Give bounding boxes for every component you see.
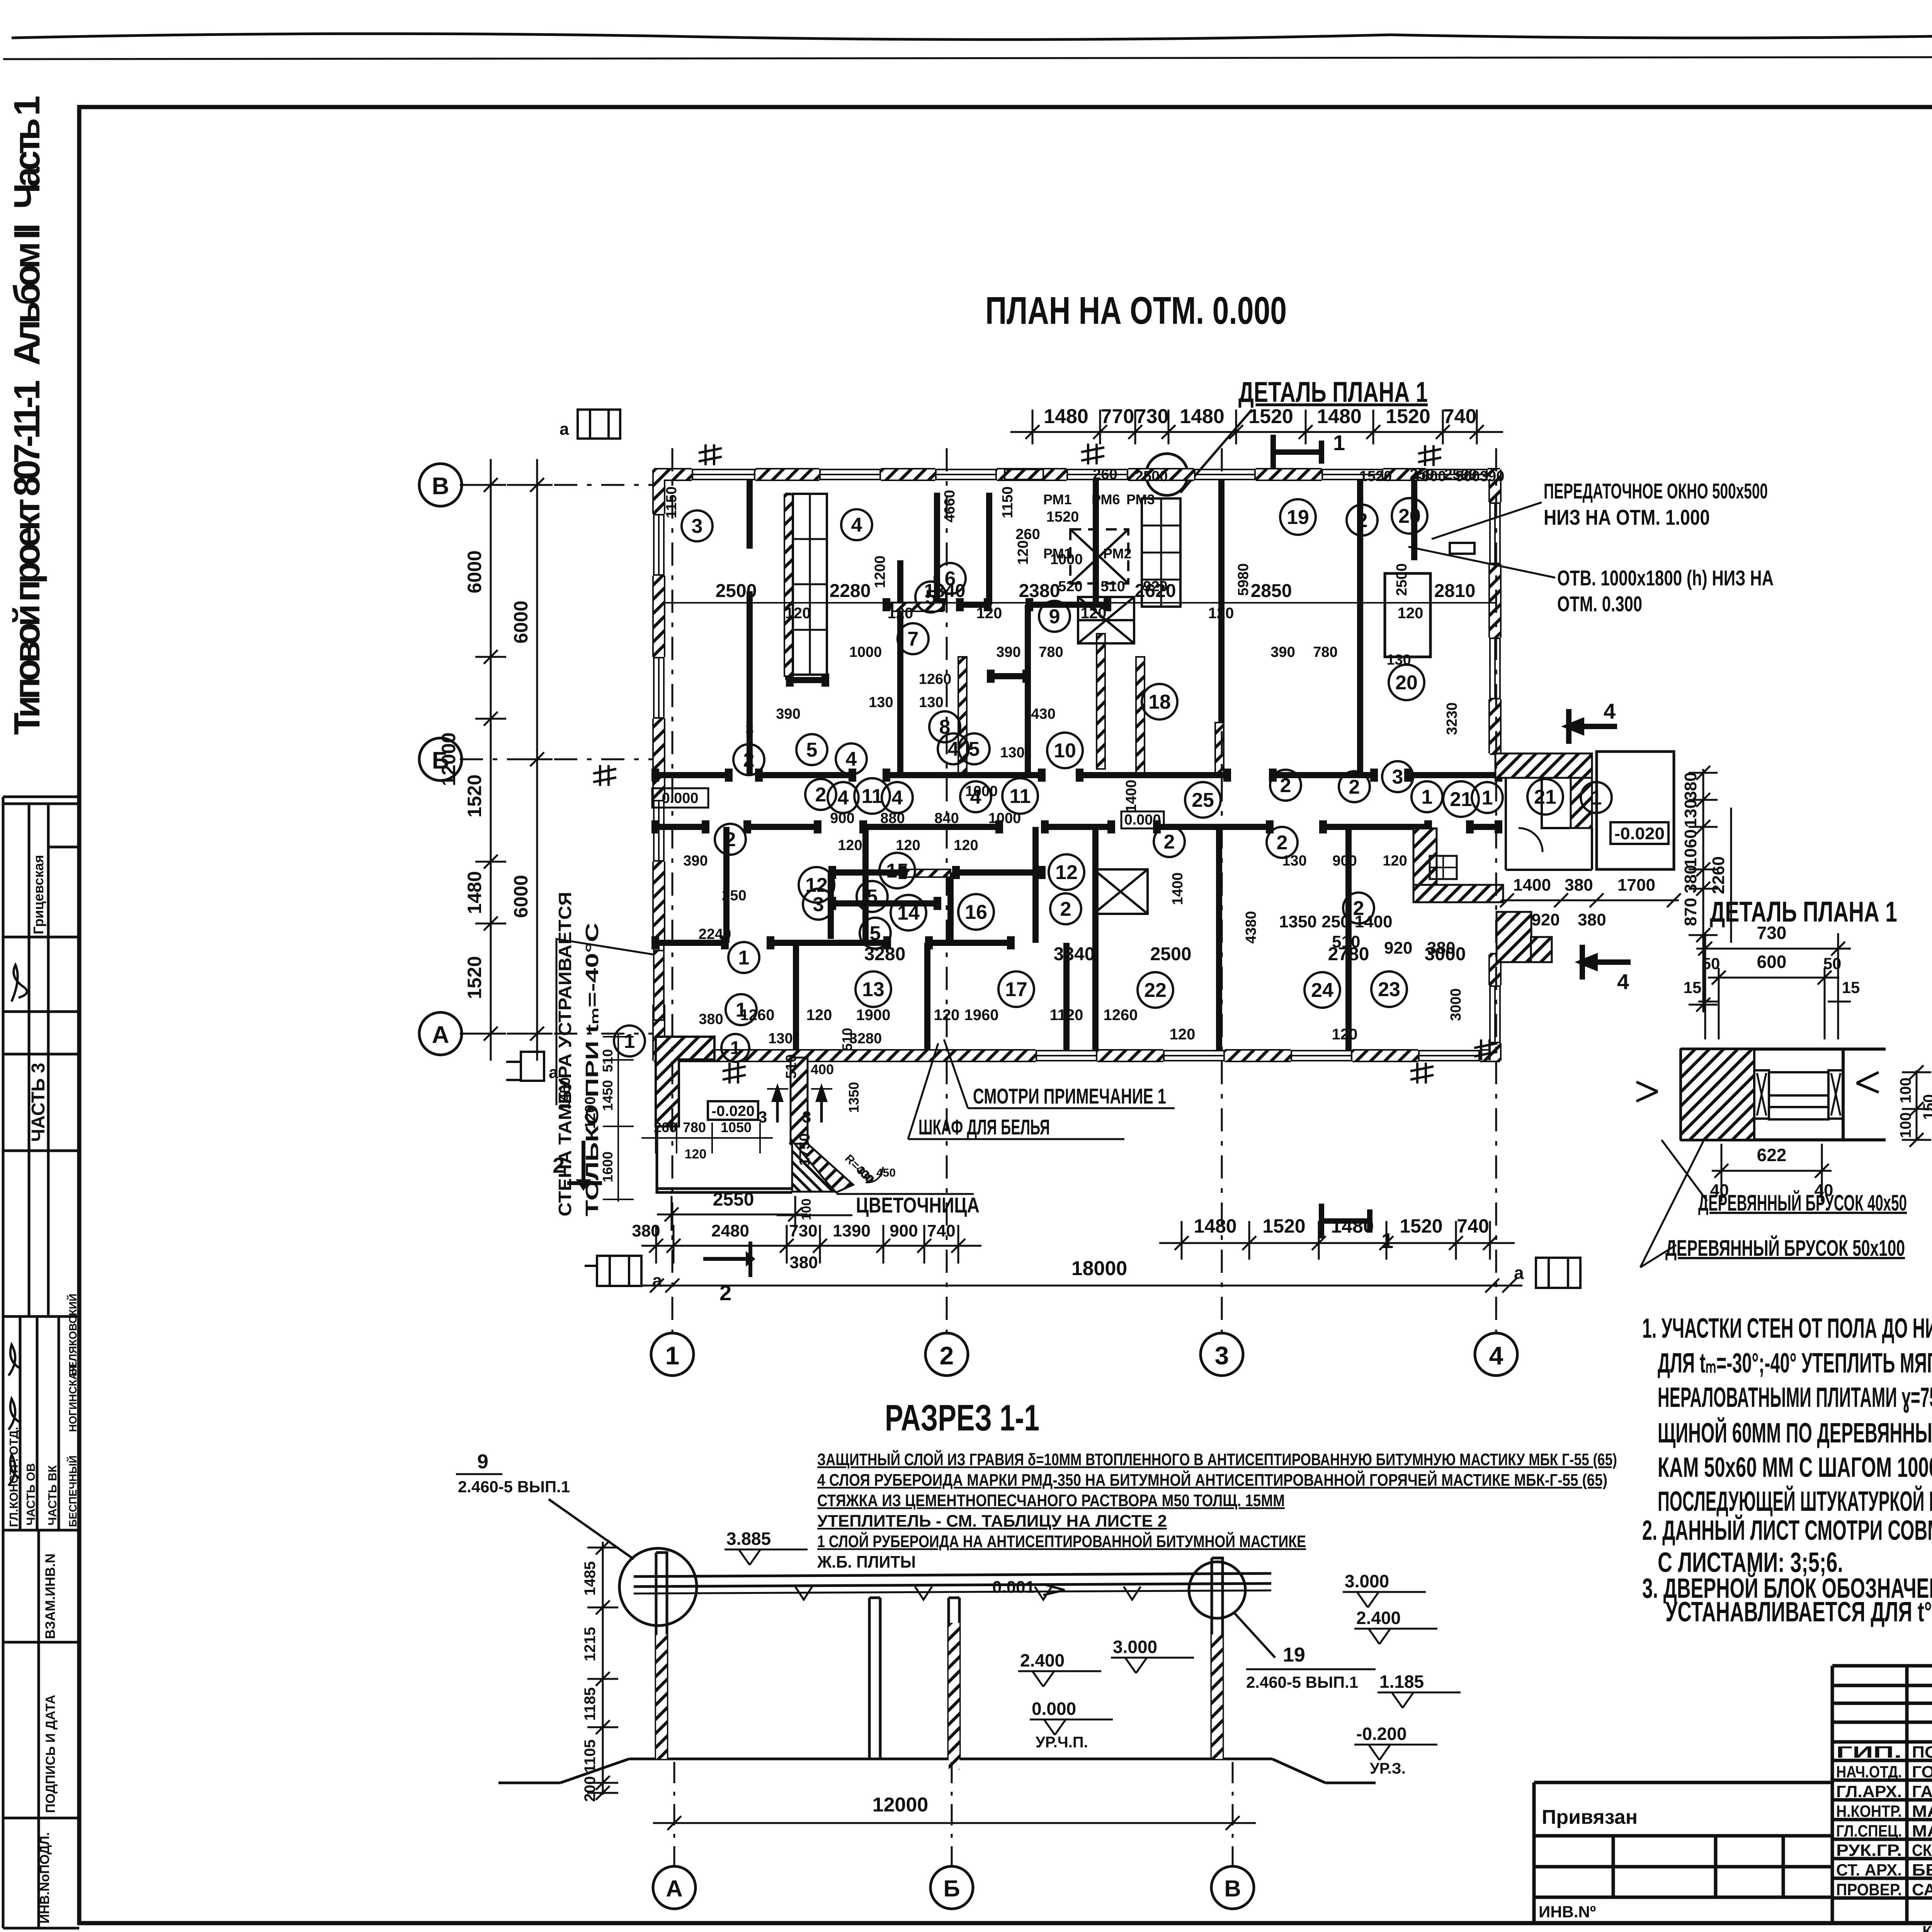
svg-text:2500: 2500 bbox=[1150, 944, 1192, 964]
section marks bbox=[1273, 430, 1631, 1253]
svg-text:130: 130 bbox=[1000, 745, 1024, 761]
svg-text:18000: 18000 bbox=[1071, 1257, 1128, 1280]
svg-text:4660: 4660 bbox=[942, 490, 958, 523]
title block: signature table bbox=[1832, 1666, 1932, 1932]
svg-text:120: 120 bbox=[1383, 853, 1407, 869]
vent shaft crosses bbox=[1070, 529, 1148, 914]
svg-text:3.885: 3.885 bbox=[726, 1529, 771, 1549]
svg-text:900: 900 bbox=[889, 1221, 918, 1240]
svg-text:Ж.Б. ПЛИТЫ: Ж.Б. ПЛИТЫ bbox=[817, 1553, 916, 1571]
svg-text:ПРОВЕР.: ПРОВЕР. bbox=[1836, 1881, 1902, 1899]
svg-text:130: 130 bbox=[1386, 652, 1411, 668]
svg-text:120: 120 bbox=[888, 605, 913, 622]
svg-text:1050: 1050 bbox=[721, 1119, 752, 1135]
svg-text:4 СЛОЯ РУБЕРОИДА МАРКИ РМД-350: 4 СЛОЯ РУБЕРОИДА МАРКИ РМД-350 НА БИТУМН… bbox=[817, 1470, 1607, 1490]
svg-text:50: 50 bbox=[1702, 954, 1720, 973]
svg-text:2500: 2500 bbox=[716, 581, 757, 601]
svg-text:3.000: 3.000 bbox=[1345, 1571, 1389, 1591]
a-box right bottom bbox=[1514, 1258, 1580, 1289]
svg-text:1520: 1520 bbox=[464, 956, 485, 999]
svg-text:17: 17 bbox=[1005, 978, 1027, 1001]
room number bubbles bbox=[614, 498, 1612, 1056]
svg-text:ЧАСТЬ ОВ: ЧАСТЬ ОВ bbox=[24, 1463, 37, 1526]
svg-text:а: а bbox=[560, 420, 569, 439]
svg-text:250: 250 bbox=[722, 888, 746, 904]
small a-boxes top bbox=[560, 410, 620, 439]
svg-text:Привязан: Привязан bbox=[1542, 1806, 1638, 1828]
sheet top scan edge bbox=[3, 34, 1932, 59]
svg-text:14: 14 bbox=[897, 902, 920, 924]
svg-text:120: 120 bbox=[806, 1007, 832, 1024]
svg-text:260: 260 bbox=[1093, 466, 1117, 483]
svg-text:РМ6: РМ6 bbox=[1092, 492, 1120, 507]
svg-text:9: 9 bbox=[1049, 605, 1060, 628]
svg-text:Грицевская: Грицевская bbox=[31, 855, 46, 934]
svg-text:1200: 1200 bbox=[872, 556, 888, 588]
svg-text:380: 380 bbox=[632, 1221, 660, 1240]
svg-text:РМ3: РМ3 bbox=[1126, 492, 1155, 507]
svg-text:130: 130 bbox=[1681, 799, 1700, 827]
-0.020 box tambour bbox=[708, 1101, 758, 1120]
sidebar small labels bbox=[7, 855, 79, 1923]
svg-text:10: 10 bbox=[1054, 740, 1076, 762]
svg-text:100: 100 bbox=[1897, 1112, 1914, 1138]
a-box left bottom bbox=[585, 1256, 662, 1291]
svg-text:2.460-5 ВЫП.1: 2.460-5 ВЫП.1 bbox=[458, 1478, 570, 1496]
svg-text:2.400: 2.400 bbox=[1020, 1650, 1065, 1670]
svg-text:МАРКОВ: МАРКОВ bbox=[1912, 1822, 1932, 1840]
svg-text:15: 15 bbox=[1842, 978, 1860, 997]
svg-text:4: 4 bbox=[1489, 1341, 1503, 1370]
svg-text:УР.З.: УР.З. bbox=[1370, 1760, 1406, 1777]
svg-text:6000: 6000 bbox=[510, 875, 532, 918]
svg-text:1: 1 bbox=[1333, 430, 1345, 455]
svg-text:15: 15 bbox=[886, 860, 908, 882]
svg-text:ЧАСТЬ ВК: ЧАСТЬ ВК bbox=[46, 1465, 59, 1526]
svg-text:5: 5 bbox=[806, 739, 818, 761]
svg-text:1750: 1750 bbox=[797, 1133, 813, 1166]
svg-text:1400: 1400 bbox=[1513, 876, 1551, 895]
svg-text:3: 3 bbox=[692, 515, 703, 537]
svg-text:ПЛАН НА ОТМ. 0.000: ПЛАН НА ОТМ. 0.000 bbox=[985, 289, 1287, 332]
svg-text:740: 740 bbox=[1457, 1215, 1489, 1237]
right extension tambour bbox=[1495, 752, 1674, 962]
wardrobe grid room9 bbox=[1142, 498, 1180, 607]
svg-text:Н.КОНТР.: Н.КОНТР. bbox=[1836, 1802, 1902, 1821]
svg-text:ЩИНОЙ 60ММ ПО ДЕРЕВЯННЫМ БРУС-: ЩИНОЙ 60ММ ПО ДЕРЕВЯННЫМ БРУС- bbox=[1658, 1417, 1932, 1449]
svg-text:120: 120 bbox=[838, 837, 862, 854]
svg-text:120: 120 bbox=[954, 837, 978, 854]
svg-text:2: 2 bbox=[553, 1153, 565, 1177]
svg-text:ГИП.: ГИП. bbox=[1836, 1743, 1902, 1762]
svg-text:ПЕРЕДАТОЧНОЕ ОКНО 500х500: ПЕРЕДАТОЧНОЕ ОКНО 500х500 bbox=[1544, 479, 1768, 503]
outer wall pier hatching bbox=[654, 469, 1500, 1061]
svg-text:120: 120 bbox=[896, 837, 920, 854]
svg-text:4: 4 bbox=[846, 748, 857, 770]
svg-text:1000: 1000 bbox=[849, 644, 882, 660]
svg-text:1840: 1840 bbox=[924, 581, 966, 601]
svg-text:3: 3 bbox=[1215, 1341, 1229, 1370]
svg-text:1600: 1600 bbox=[600, 1151, 616, 1182]
svg-text:2. ДАННЫЙ ЛИСТ СМОТРИ СОВМЕСТН: 2. ДАННЫЙ ЛИСТ СМОТРИ СОВМЕСТНО bbox=[1642, 1514, 1932, 1546]
hatched wall cuts bbox=[654, 469, 1224, 1020]
svg-text:1485: 1485 bbox=[582, 1561, 599, 1596]
svg-text:2: 2 bbox=[1280, 774, 1291, 797]
svg-text:4: 4 bbox=[838, 787, 849, 809]
svg-text:-0.020: -0.020 bbox=[711, 1103, 755, 1119]
svg-text:0.000: 0.000 bbox=[662, 790, 698, 806]
svg-text:1150: 1150 bbox=[663, 486, 680, 518]
svg-text:260: 260 bbox=[654, 1119, 677, 1135]
svg-text:20: 20 bbox=[1398, 505, 1421, 527]
svg-text:21: 21 bbox=[1534, 786, 1556, 808]
detail labels bbox=[1640, 1140, 1907, 1267]
svg-text:1480: 1480 bbox=[1180, 405, 1225, 428]
svg-text:5: 5 bbox=[867, 886, 878, 908]
svg-text:БЕСПЕЧНЫЙ: БЕСПЕЧНЫЙ bbox=[66, 1456, 79, 1527]
svg-text:1: 1 bbox=[730, 1038, 741, 1058]
svg-text:3280: 3280 bbox=[849, 1031, 882, 1047]
svg-text:50: 50 bbox=[1823, 954, 1842, 973]
svg-text:2: 2 bbox=[725, 828, 736, 851]
svg-text:Типовой проект 807-11-1 Альб: Типовой проект 807-11-1 Альбом II Часть … bbox=[7, 95, 48, 735]
detail callout circle bbox=[1146, 454, 1188, 495]
svg-text:РУК.ГР.: РУК.ГР. bbox=[1836, 1841, 1902, 1860]
room bubble 1 tambour bbox=[721, 1034, 749, 1062]
svg-text:5: 5 bbox=[870, 922, 881, 945]
svg-text:730: 730 bbox=[1135, 405, 1169, 428]
section left dims bbox=[582, 1541, 618, 1802]
svg-text:380: 380 bbox=[789, 1253, 818, 1272]
svg-text:ИНВ.Nº: ИНВ.Nº bbox=[1539, 1903, 1596, 1921]
svg-text:2: 2 bbox=[1060, 898, 1071, 920]
svg-text:380: 380 bbox=[699, 1011, 723, 1027]
svg-text:1: 1 bbox=[1422, 786, 1433, 808]
RM labels bbox=[1043, 492, 1155, 561]
svg-text:1060: 1060 bbox=[1681, 829, 1700, 867]
opening room 20 bbox=[1385, 543, 1475, 657]
svg-text:3: 3 bbox=[1392, 766, 1403, 788]
flower bed triangle bbox=[777, 1141, 974, 1215]
left dimension chains bbox=[438, 459, 553, 1061]
svg-text:430: 430 bbox=[1031, 706, 1055, 722]
svg-text:150: 150 bbox=[1920, 1094, 1932, 1120]
-0.020 box right bbox=[1611, 822, 1668, 844]
svg-text:120: 120 bbox=[1081, 605, 1107, 622]
svg-text:ЦВЕТОЧНИЦА: ЦВЕТОЧНИЦА bbox=[856, 1193, 980, 1217]
svg-text:-0.200: -0.200 bbox=[1356, 1724, 1406, 1744]
svg-text:380: 380 bbox=[1681, 865, 1700, 893]
svg-text:1400: 1400 bbox=[1123, 780, 1139, 813]
svg-text:380: 380 bbox=[1565, 876, 1593, 895]
svg-text:130: 130 bbox=[768, 1031, 793, 1047]
svg-text:2780: 2780 bbox=[1328, 944, 1369, 964]
svg-text:ДЛЯ tₘ=-30°;-40° УТЕПЛИТЬ МЯГК: ДЛЯ tₘ=-30°;-40° УТЕПЛИТЬ МЯГКИМИ МИ- bbox=[1658, 1348, 1932, 1379]
svg-text:3000: 3000 bbox=[1448, 988, 1464, 1021]
svg-text:2500: 2500 bbox=[1135, 468, 1168, 485]
svg-text:а: а bbox=[1514, 1263, 1524, 1283]
svg-text:РМ1: РМ1 bbox=[1043, 546, 1072, 561]
axis lines horizontal bbox=[460, 485, 654, 1034]
svg-text:120: 120 bbox=[976, 605, 1002, 622]
svg-text:3: 3 bbox=[813, 893, 824, 916]
wardrobe grid room4 bbox=[793, 494, 827, 675]
axis bubbles left of plan bbox=[419, 464, 462, 1055]
svg-text:510: 510 bbox=[600, 1049, 616, 1072]
svg-text:130: 130 bbox=[1282, 853, 1306, 869]
svg-text:2.400: 2.400 bbox=[1356, 1608, 1401, 1628]
svg-text:12000: 12000 bbox=[872, 1794, 929, 1816]
svg-text:2: 2 bbox=[815, 784, 827, 806]
building outer walls bbox=[654, 469, 1500, 1061]
svg-text:НИЗ НА ОТМ. 1.000: НИЗ НА ОТМ. 1.000 bbox=[1544, 505, 1710, 529]
section axis bubbles bbox=[653, 1762, 1254, 1909]
svg-text:1: 1 bbox=[1482, 787, 1493, 809]
interior dims row2 bbox=[740, 944, 1466, 1043]
top dimension line bbox=[1010, 405, 1503, 444]
svg-text:2810: 2810 bbox=[1434, 581, 1476, 601]
svg-text:12: 12 bbox=[1055, 861, 1078, 884]
svg-text:1520: 1520 bbox=[1248, 405, 1293, 428]
svg-text:2550: 2550 bbox=[713, 1189, 754, 1210]
svg-text:510: 510 bbox=[1100, 578, 1125, 595]
svg-text:1520: 1520 bbox=[1400, 1215, 1442, 1237]
svg-text:1260: 1260 bbox=[1104, 1007, 1138, 1024]
svg-text:6000: 6000 bbox=[510, 600, 532, 643]
svg-text:1480: 1480 bbox=[1044, 405, 1088, 428]
svg-text:120: 120 bbox=[1170, 1026, 1196, 1043]
svg-text:1260: 1260 bbox=[740, 1007, 775, 1024]
svg-text:1520: 1520 bbox=[1359, 468, 1392, 485]
svg-text:380: 380 bbox=[1578, 910, 1606, 929]
svg-text:12000: 12000 bbox=[438, 732, 459, 786]
svg-text:ПОДПИСЬ И ДАТА: ПОДПИСЬ И ДАТА bbox=[43, 1695, 58, 1813]
svg-text:130: 130 bbox=[869, 694, 893, 711]
svg-text:СМОТРИ ПРИМЕЧАНИЕ 1: СМОТРИ ПРИМЕЧАНИЕ 1 bbox=[973, 1084, 1166, 1108]
section title bbox=[885, 1397, 1039, 1439]
svg-text:СТ. АРХ.: СТ. АРХ. bbox=[1836, 1861, 1902, 1879]
svg-text:РМ1: РМ1 bbox=[1043, 492, 1072, 507]
svg-text:2500: 2500 bbox=[1444, 466, 1477, 483]
svg-text:ДЕРЕВЯННЫЙ БРУСОК 40х50: ДЕРЕВЯННЫЙ БРУСОК 40х50 bbox=[1698, 1190, 1907, 1216]
svg-text:2.460-5 ВЫП.1: 2.460-5 ВЫП.1 bbox=[1246, 1673, 1358, 1691]
svg-text:400: 400 bbox=[811, 1061, 834, 1077]
svg-text:3000: 3000 bbox=[1425, 944, 1466, 964]
svg-text:РАЗРЕЗ 1-1: РАЗРЕЗ 1-1 bbox=[885, 1397, 1039, 1439]
svg-text:120: 120 bbox=[1208, 605, 1234, 622]
svg-text:200: 200 bbox=[582, 1776, 599, 1802]
interior walls bbox=[654, 480, 1500, 1051]
svg-text:2500: 2500 bbox=[1394, 563, 1410, 596]
svg-text:ЧАСТЬ 3: ЧАСТЬ 3 bbox=[28, 1063, 49, 1142]
svg-text:2: 2 bbox=[1349, 776, 1360, 798]
svg-text:520: 520 bbox=[1058, 578, 1082, 595]
porch stair arrows bbox=[758, 1083, 832, 1126]
svg-text:2280: 2280 bbox=[830, 581, 871, 601]
svg-text:24: 24 bbox=[1311, 979, 1333, 1002]
svg-text:380: 380 bbox=[1681, 772, 1700, 800]
detail drawing bbox=[1636, 1049, 1886, 1140]
svg-text:1480: 1480 bbox=[464, 871, 485, 914]
svg-text:ДЕРЕВЯННЫЙ БРУСОК 50х100: ДЕРЕВЯННЫЙ БРУСОК 50х100 bbox=[1665, 1236, 1905, 1261]
svg-text:1480: 1480 bbox=[1317, 405, 1362, 428]
svg-text:1: 1 bbox=[1591, 787, 1602, 809]
svg-text:1260: 1260 bbox=[919, 671, 952, 687]
dimension 2550 bbox=[657, 1189, 814, 1231]
svg-text:ГОРБУНОВ: ГОРБУНОВ bbox=[1912, 1763, 1932, 1781]
svg-text:А: А bbox=[432, 1022, 449, 1048]
svg-text:1: 1 bbox=[624, 1030, 635, 1053]
svg-text:1400: 1400 bbox=[1170, 872, 1186, 905]
svg-text:ДЕТАЛЬ ПЛАНА 1: ДЕТАЛЬ ПЛАНА 1 bbox=[1238, 376, 1428, 408]
svg-text:4: 4 bbox=[1617, 969, 1629, 994]
svg-text:900: 900 bbox=[1332, 853, 1357, 869]
svg-text:3: 3 bbox=[745, 721, 753, 738]
svg-text:2: 2 bbox=[940, 1341, 954, 1370]
svg-text:ОТВ. 1000х1800 (h) НИЗ НА: ОТВ. 1000х1800 (h) НИЗ НА bbox=[1557, 566, 1774, 590]
svg-text:РМ2: РМ2 bbox=[1103, 546, 1132, 561]
svg-text:16: 16 bbox=[965, 901, 987, 923]
svg-text:а: а bbox=[549, 1063, 558, 1082]
svg-text:ШКАФ ДЛЯ БЕЛЬЯ: ШКАФ ДЛЯ БЕЛЬЯ bbox=[918, 1115, 1050, 1139]
svg-text:1150: 1150 bbox=[1000, 486, 1016, 518]
svg-text:ПОСЛЕДУЮЩЕЙ ШТУКАТУРКОЙ ПО СЕТ: ПОСЛЕДУЮЩЕЙ ШТУКАТУРКОЙ ПО СЕТКЕ. bbox=[1658, 1485, 1932, 1517]
svg-text:740: 740 bbox=[1443, 405, 1477, 428]
svg-text:740: 740 bbox=[927, 1221, 955, 1240]
svg-text:1: 1 bbox=[738, 947, 750, 969]
svg-text:ВЗАМ.ИНВ.N: ВЗАМ.ИНВ.N bbox=[43, 1553, 58, 1639]
dimension 18000 bbox=[641, 1257, 1522, 1293]
elevation marks bbox=[724, 1529, 808, 1565]
svg-text:2240: 2240 bbox=[699, 926, 731, 942]
svg-text:5980: 5980 bbox=[1235, 563, 1252, 596]
svg-text:780: 780 bbox=[1039, 644, 1063, 660]
svg-text:БЕЛЯКОВСКИЙ: БЕЛЯКОВСКИЙ bbox=[66, 1294, 79, 1376]
svg-text:100: 100 bbox=[1897, 1078, 1914, 1104]
svg-text:1105: 1105 bbox=[582, 1740, 599, 1773]
svg-text:770: 770 bbox=[1101, 405, 1134, 428]
misc small dims scattered bbox=[557, 466, 1504, 1166]
annotation шкаф для белья bbox=[908, 1043, 1124, 1139]
svg-text:18: 18 bbox=[1148, 691, 1171, 713]
svg-text:900: 900 bbox=[830, 810, 854, 827]
svg-text:УР.Ч.П.: УР.Ч.П. bbox=[1036, 1734, 1088, 1751]
svg-text:120: 120 bbox=[785, 605, 811, 622]
entrance porch bottom-left bbox=[657, 1058, 853, 1192]
svg-text:1960: 1960 bbox=[964, 1007, 999, 1024]
svg-text:Б: Б bbox=[943, 1876, 960, 1901]
svg-text:6000: 6000 bbox=[464, 550, 485, 593]
svg-text:НАЧ.ОТД.: НАЧ.ОТД. bbox=[1836, 1763, 1902, 1781]
svg-text:730: 730 bbox=[1757, 923, 1787, 943]
svg-text:2380: 2380 bbox=[1019, 581, 1060, 601]
svg-text:1215: 1215 bbox=[582, 1627, 599, 1662]
svg-text:1185: 1185 bbox=[582, 1687, 599, 1721]
svg-text:622: 622 bbox=[1757, 1145, 1787, 1165]
svg-text:20: 20 bbox=[1395, 672, 1418, 694]
svg-text:ДЕТАЛЬ ПЛАНА 1: ДЕТАЛЬ ПЛАНА 1 bbox=[1710, 896, 1897, 928]
detail circle right bbox=[1189, 1562, 1376, 1691]
svg-text:780: 780 bbox=[683, 1119, 706, 1135]
right extension dims bbox=[1681, 766, 1731, 1012]
detail dims above bbox=[1684, 923, 1860, 1039]
svg-text:1480: 1480 bbox=[1194, 1215, 1236, 1237]
svg-text:23: 23 bbox=[1378, 978, 1400, 1001]
svg-text:260: 260 bbox=[1015, 526, 1040, 543]
svg-text:1000: 1000 bbox=[965, 783, 998, 799]
svg-text:2: 2 bbox=[1164, 831, 1175, 853]
section 12000 dim bbox=[653, 1794, 1256, 1830]
dims 1350 250 1400 row bbox=[1279, 912, 1455, 957]
svg-text:920: 920 bbox=[1531, 910, 1560, 929]
svg-text:1350 250 1400: 1350 250 1400 bbox=[1279, 912, 1393, 931]
svg-text:390: 390 bbox=[683, 853, 707, 869]
svg-text:11: 11 bbox=[862, 785, 883, 808]
door jamb blobs bbox=[651, 598, 1502, 949]
svg-text:1 СЛОЙ РУБЕРОИДА НА АНТИСЕПТИР: 1 СЛОЙ РУБЕРОИДА НА АНТИСЕПТИРОВАННОЙ БИ… bbox=[817, 1531, 1306, 1551]
svg-text:ГАВРИЛОВ: ГАВРИЛОВ bbox=[1912, 1782, 1932, 1801]
svg-text:0.001: 0.001 bbox=[992, 1578, 1035, 1597]
svg-text:СТЯЖКА ИЗ ЦЕМЕНТНОПЕСЧАНОГО РА: СТЯЖКА ИЗ ЦЕМЕНТНОПЕСЧАНОГО РАСТВОРА М50… bbox=[817, 1491, 1285, 1510]
svg-text:870: 870 bbox=[1681, 898, 1700, 926]
svg-text:1520: 1520 bbox=[464, 774, 485, 817]
svg-text:25: 25 bbox=[1192, 789, 1214, 811]
bottom dimensions left part bbox=[632, 1221, 981, 1272]
sidebar stamp grid bbox=[3, 797, 79, 1928]
svg-text:1: 1 bbox=[1381, 1228, 1393, 1253]
svg-text:13: 13 bbox=[862, 978, 884, 1001]
svg-text:1000: 1000 bbox=[988, 810, 1021, 827]
axis bubbles bottom of plan bbox=[651, 1333, 1517, 1376]
svg-text:1350: 1350 bbox=[846, 1082, 862, 1113]
svg-text:БЕЛЯЕВ: БЕЛЯЕВ bbox=[1912, 1861, 1932, 1879]
svg-text:600: 600 bbox=[1757, 952, 1787, 972]
svg-text:А: А bbox=[666, 1876, 682, 1901]
annotation смотри примечание bbox=[944, 1039, 1175, 1108]
section structure bbox=[498, 1553, 1376, 1783]
svg-text:1390: 1390 bbox=[833, 1221, 871, 1240]
svg-text:730: 730 bbox=[789, 1221, 817, 1240]
leader передаточное окно bbox=[1432, 479, 1768, 539]
svg-text:1. УЧАСТКИ СТЕН ОТ ПОЛА ДО НИЗ: 1. УЧАСТКИ СТЕН ОТ ПОЛА ДО НИЗА ПЛИТ bbox=[1642, 1313, 1932, 1344]
svg-text:3340: 3340 bbox=[1054, 944, 1095, 964]
svg-text:4380: 4380 bbox=[1243, 911, 1259, 944]
svg-text:4: 4 bbox=[851, 514, 862, 536]
svg-text:МАРКОВ: МАРКОВ bbox=[1912, 1802, 1932, 1821]
svg-text:ПОПОВ: ПОПОВ bbox=[1912, 1743, 1932, 1762]
svg-text:ОТМ. 0.300: ОТМ. 0.300 bbox=[1557, 592, 1642, 616]
svg-text:250: 250 bbox=[1410, 466, 1434, 483]
svg-text:21: 21 bbox=[1450, 788, 1472, 811]
svg-text:120: 120 bbox=[1398, 605, 1423, 622]
svg-text:4: 4 bbox=[892, 787, 903, 809]
svg-text:19: 19 bbox=[1283, 1644, 1305, 1666]
svg-text:7: 7 bbox=[908, 628, 919, 650]
svg-text:120: 120 bbox=[685, 1147, 707, 1162]
svg-text:120: 120 bbox=[1332, 1026, 1358, 1043]
bottom dimensions right part bbox=[1159, 1215, 1515, 1260]
svg-text:а: а bbox=[652, 1270, 662, 1291]
svg-text:КОПИРОВАЛ: КОПИРОВАЛ bbox=[1922, 1923, 1932, 1932]
tambour small dims bbox=[600, 1028, 896, 1202]
section spec text bbox=[817, 1449, 1617, 1571]
annotation цветочница bbox=[856, 1193, 980, 1217]
svg-text:2260: 2260 bbox=[1709, 856, 1728, 894]
svg-text:19: 19 bbox=[1287, 506, 1309, 529]
detail dims right bbox=[1897, 1065, 1932, 1147]
svg-text:1: 1 bbox=[665, 1341, 680, 1370]
svg-text:2: 2 bbox=[1357, 509, 1368, 532]
